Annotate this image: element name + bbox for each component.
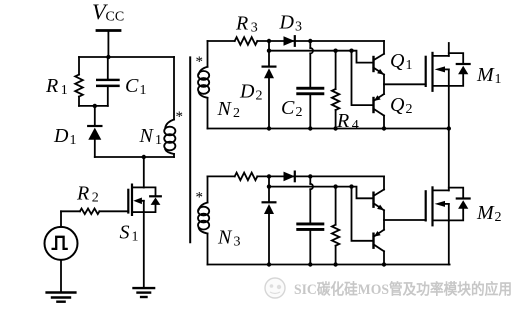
svg-text:CC: CC bbox=[106, 10, 125, 25]
label Q1 bbox=[390, 50, 413, 73]
svg-text:*: * bbox=[176, 109, 184, 125]
svg-text:1: 1 bbox=[406, 58, 413, 73]
transistor Q2 bbox=[374, 94, 385, 129]
svg-text:2: 2 bbox=[406, 102, 413, 117]
label R3 bbox=[235, 13, 258, 36]
diode D2 bbox=[263, 41, 276, 129]
ground under S1 bbox=[134, 288, 155, 297]
svg-text:S: S bbox=[120, 222, 130, 244]
node junction D4 bottom bbox=[267, 262, 271, 266]
diode D1 bbox=[88, 106, 101, 157]
node junction M1 source bbox=[447, 126, 451, 130]
svg-text:N: N bbox=[217, 98, 233, 120]
svg-text:D: D bbox=[53, 125, 69, 147]
svg-text:4: 4 bbox=[352, 118, 359, 133]
node junction C3 top bbox=[308, 174, 312, 178]
wire base bus (second line) bbox=[269, 50, 352, 52]
node junction D2 bottom bbox=[267, 126, 271, 130]
transformer core bbox=[189, 57, 191, 242]
wire emitter midpoint 2 bbox=[383, 210, 385, 229]
MOSFET M1 bbox=[426, 43, 470, 129]
wire base jog to Q3 bbox=[352, 187, 374, 199]
wire base drop to Q4 bbox=[352, 187, 374, 241]
wire bottom rail secondary 1 bbox=[208, 128, 449, 130]
label R2 bbox=[76, 183, 99, 206]
svg-text:Q: Q bbox=[390, 50, 405, 72]
capacitor C3 (unlabeled) with crossover hop bbox=[296, 176, 324, 264]
resistor R2 bbox=[61, 209, 128, 215]
label Q2 bbox=[390, 94, 413, 117]
label S1 bbox=[120, 222, 139, 245]
node junction Q2 collector bbox=[382, 126, 386, 130]
transistor Q3 (unlabeled) bbox=[374, 176, 385, 210]
node junction D2 at base bus bbox=[267, 49, 271, 53]
label D2 bbox=[239, 81, 263, 104]
svg-text:3: 3 bbox=[295, 20, 302, 35]
svg-text:1: 1 bbox=[495, 72, 502, 87]
power supply VCC symbol bbox=[97, 31, 120, 58]
svg-text:R: R bbox=[76, 183, 89, 205]
label C2 bbox=[281, 97, 303, 120]
node junction C3 bottom bbox=[308, 262, 312, 266]
svg-text:M: M bbox=[476, 202, 495, 224]
capacitor C1 bbox=[96, 57, 120, 106]
resistor R6 (unlabeled) bbox=[332, 187, 339, 265]
wire bottom rail secondary 2 bbox=[208, 264, 450, 266]
node junction D4 at base bus bbox=[267, 184, 271, 188]
label M2 bbox=[476, 202, 502, 225]
ground for pulse source bbox=[47, 293, 76, 302]
label R4 bbox=[336, 110, 359, 133]
node junction base split bbox=[349, 49, 353, 53]
wire bottom of R1 C1 bbox=[79, 105, 108, 107]
svg-text:2: 2 bbox=[233, 106, 240, 121]
svg-text:C: C bbox=[125, 75, 139, 97]
svg-text:3: 3 bbox=[251, 21, 258, 36]
transistor Q4 (unlabeled) bbox=[374, 230, 385, 265]
label D1 bbox=[53, 125, 77, 148]
svg-text:Q: Q bbox=[390, 94, 405, 116]
winding N1 bbox=[164, 57, 175, 157]
svg-text:2: 2 bbox=[92, 191, 99, 206]
svg-text:R: R bbox=[45, 75, 58, 97]
node junction at S1 drain bbox=[142, 155, 146, 159]
diode D4 (unlabeled) bbox=[263, 176, 276, 264]
resistor R1 bbox=[75, 57, 83, 106]
resistor R3 bbox=[235, 37, 258, 45]
wire top rail secondary 2 bbox=[208, 175, 385, 177]
wire emitter midpoint bbox=[383, 75, 385, 94]
diode D5 (unlabeled) bbox=[284, 172, 295, 182]
node junction R4 bottom bbox=[333, 126, 337, 130]
transistor Q1 bbox=[374, 41, 385, 75]
wire top rail from R1 to N1 bbox=[79, 56, 174, 58]
wire gate lead M1 bbox=[384, 83, 426, 85]
svg-text:D: D bbox=[239, 81, 255, 103]
capacitor C2 with crossover hop bbox=[296, 41, 324, 129]
label C1 bbox=[125, 75, 147, 98]
svg-text:C: C bbox=[281, 97, 295, 119]
label M1 bbox=[476, 64, 502, 87]
MOSFET M2 bbox=[426, 129, 470, 265]
label N2 bbox=[217, 98, 241, 121]
node junction C2 top bbox=[308, 39, 312, 43]
svg-text:1: 1 bbox=[70, 133, 77, 148]
wire gate lead M2 bbox=[384, 219, 426, 221]
node junction R6 top bbox=[333, 184, 337, 188]
wire base jog to Q1 bbox=[352, 51, 374, 63]
resistor R4 bbox=[332, 51, 339, 129]
node junction R4 top bbox=[333, 49, 337, 53]
svg-text:N: N bbox=[139, 125, 155, 147]
wire node under primary bbox=[95, 156, 174, 158]
label R1 bbox=[45, 75, 68, 98]
svg-text:1: 1 bbox=[140, 83, 147, 98]
node junction base split 2 bbox=[349, 184, 353, 188]
winding N2 bbox=[198, 41, 209, 129]
label N3 bbox=[217, 227, 241, 250]
watermark logo bbox=[265, 278, 285, 298]
label D3 bbox=[279, 12, 303, 35]
svg-text:2: 2 bbox=[296, 105, 303, 120]
node junction R6 bottom bbox=[333, 262, 337, 266]
diode D3 bbox=[284, 36, 295, 46]
svg-text:*: * bbox=[196, 190, 204, 206]
svg-text:*: * bbox=[196, 54, 204, 70]
svg-text:M: M bbox=[476, 64, 495, 86]
wire base drop to Q2 bbox=[352, 51, 374, 105]
label N1 bbox=[139, 125, 163, 148]
wire top rail secondary 1 bbox=[208, 40, 385, 42]
node junction at VCC stem bbox=[106, 55, 110, 59]
node junction R3-D3 bbox=[267, 39, 271, 43]
label VCC bbox=[92, 0, 124, 25]
MOSFET S1 bbox=[128, 157, 161, 288]
wire base bus secondary 2 bbox=[269, 186, 352, 188]
svg-text:D: D bbox=[279, 12, 295, 34]
winding N3 bbox=[198, 176, 209, 264]
node junction C2 bottom bbox=[308, 126, 312, 130]
resistor R5 (unlabeled) bbox=[235, 173, 258, 181]
node junction R5-D5 bbox=[267, 174, 271, 178]
node junction Q4 collector bbox=[382, 262, 386, 266]
svg-text:2: 2 bbox=[495, 210, 502, 225]
pulse source bbox=[45, 211, 78, 292]
svg-text:SIC碳化硅MOS管及功率模块的应用: SIC碳化硅MOS管及功率模块的应用 bbox=[294, 280, 512, 298]
node junction at D1 top bbox=[93, 104, 97, 108]
svg-text:1: 1 bbox=[155, 133, 162, 148]
svg-text:1: 1 bbox=[61, 83, 68, 98]
svg-text:N: N bbox=[217, 227, 233, 249]
svg-text:3: 3 bbox=[234, 235, 241, 250]
svg-text:2: 2 bbox=[256, 89, 263, 104]
svg-text:R: R bbox=[235, 13, 248, 35]
svg-text:1: 1 bbox=[132, 230, 139, 245]
